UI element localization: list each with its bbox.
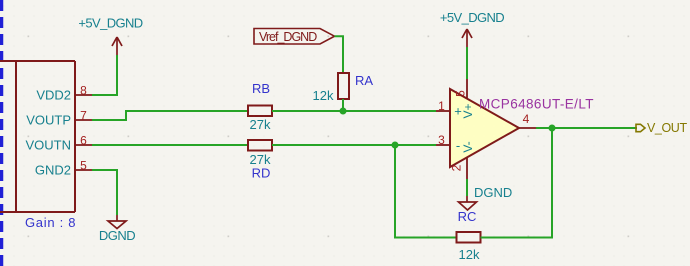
- svg-text:5: 5: [454, 90, 468, 97]
- wire pin7 to RB: [92, 111, 248, 120]
- svg-text:Vref_DGND: Vref_DGND: [259, 30, 317, 44]
- resistor RC: [457, 209, 481, 262]
- sheet border (blue dashed): [0, 0, 3, 266]
- wire pin8 to +5V: [92, 55, 117, 95]
- power symbol +5V_DGND (right): [440, 10, 504, 47]
- wire RB to op-amp + input: [272, 110, 436, 112]
- svg-text:4: 4: [523, 112, 530, 126]
- pin 8 VDD2: [36, 84, 92, 103]
- svg-text:RC: RC: [458, 209, 477, 224]
- wire label to RA: [335, 36, 344, 73]
- junction node output: [549, 125, 556, 132]
- svg-text:12k: 12k: [313, 88, 334, 103]
- svg-text:MCP6486UT-E/LT: MCP6486UT-E/LT: [479, 97, 594, 112]
- pin 5 GND2: [35, 159, 92, 178]
- wire RD to op-amp - input: [272, 144, 436, 146]
- op-amp pin 3: [436, 133, 450, 147]
- svg-text:6: 6: [80, 134, 87, 148]
- svg-text:V-: V-: [461, 141, 475, 152]
- svg-text:DGND: DGND: [99, 228, 135, 243]
- op-amp pin 2 (V-): [450, 157, 468, 179]
- wire +5V to op-amp pin5: [466, 47, 468, 79]
- svg-text:12k: 12k: [459, 247, 480, 262]
- op-amp pin 1: [436, 99, 450, 113]
- component U body (clipped at left): [0, 61, 75, 212]
- svg-text:RB: RB: [252, 81, 270, 96]
- op-amp U1 MCP6486: [450, 89, 594, 167]
- svg-text:V_OUT: V_OUT: [647, 121, 687, 135]
- svg-text:VOUTP: VOUTP: [26, 113, 71, 128]
- pin 7 VOUTP: [26, 109, 92, 128]
- junction node RA/RB: [340, 108, 347, 115]
- svg-text:5: 5: [80, 159, 87, 173]
- global label Vref_DGND: [254, 29, 335, 45]
- svg-text:+5V_DGND: +5V_DGND: [78, 16, 142, 31]
- resistor RD: [248, 140, 272, 181]
- power symbol +5V_DGND (left): [78, 16, 142, 56]
- power symbol DGND (right): [459, 185, 513, 210]
- svg-text:3: 3: [438, 133, 445, 147]
- svg-text:DGND: DGND: [474, 185, 512, 200]
- svg-text:VOUTN: VOUTN: [26, 138, 72, 153]
- svg-text:7: 7: [80, 109, 87, 123]
- wire feedback loop: [395, 145, 456, 238]
- junction node feedback: [392, 142, 399, 149]
- wire pin5 to DGND: [92, 170, 117, 215]
- svg-text:V+: V+: [461, 103, 475, 118]
- op-amp pin 4 output: [519, 112, 536, 128]
- svg-text:-: -: [456, 138, 460, 153]
- svg-text:Gain : 8: Gain : 8: [25, 215, 76, 230]
- resistor RB: [248, 81, 272, 132]
- svg-text:+5V_DGND: +5V_DGND: [440, 10, 504, 25]
- wire RA to node: [342, 99, 344, 111]
- svg-text:1: 1: [438, 99, 445, 113]
- svg-text:VDD2: VDD2: [36, 88, 71, 103]
- wire op-amp pin2 to DGND: [466, 179, 468, 196]
- svg-text:RA: RA: [355, 73, 373, 88]
- svg-text:RD: RD: [252, 166, 271, 181]
- wire pin6 to RD: [92, 144, 248, 146]
- op-amp pin 5 (V+): [454, 79, 468, 99]
- wire op-amp output: [536, 127, 637, 129]
- resistor RA: [313, 73, 374, 103]
- svg-text:2: 2: [450, 164, 464, 171]
- svg-text:27k: 27k: [250, 117, 271, 132]
- pin 6 VOUTN: [26, 134, 93, 153]
- svg-text:8: 8: [80, 84, 87, 98]
- wire RC to output node: [481, 128, 553, 238]
- hierarchical label V_OUT: [636, 121, 687, 135]
- power symbol DGND (left): [99, 215, 135, 243]
- svg-text:GND2: GND2: [35, 163, 71, 178]
